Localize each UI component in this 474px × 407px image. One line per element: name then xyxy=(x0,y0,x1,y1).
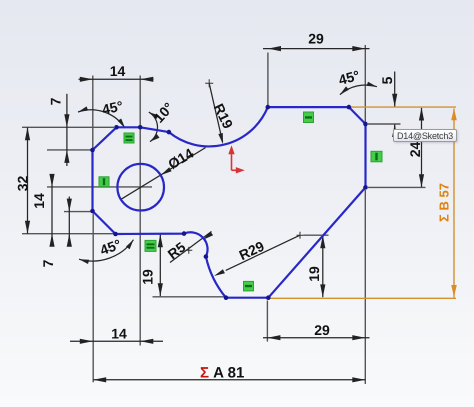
dim line 5 lower stub xyxy=(394,125,396,135)
arrow 19R lower xyxy=(320,284,325,297)
extension line x=140.2 through circle xyxy=(139,76,141,346)
svg-text:14: 14 xyxy=(31,193,47,209)
arrow 7-lower lower xyxy=(67,234,72,247)
arrow 19M upper xyxy=(158,234,163,247)
svg-text:Σ B 57: Σ B 57 xyxy=(437,183,452,222)
orange dim line xyxy=(453,109,455,298)
vertex V11 xyxy=(204,254,209,259)
sketch vertices xyxy=(90,105,368,300)
svg-text:Ø14: Ø14 xyxy=(165,145,196,172)
svg-text:29: 29 xyxy=(314,322,330,338)
arrow R5 xyxy=(203,232,213,240)
arrow A81 right xyxy=(352,377,365,382)
center mark R5 xyxy=(185,247,192,254)
origin y-axis arrowhead xyxy=(228,145,234,154)
svg-text:Σ A 81: Σ A 81 xyxy=(200,365,244,382)
svg-text:45°: 45° xyxy=(100,97,124,117)
svg-text:24: 24 xyxy=(407,142,423,158)
leader R29 xyxy=(226,235,300,270)
orange arrow bottom xyxy=(451,285,457,297)
relation square top edge xyxy=(304,112,314,123)
arrow 45BL left xyxy=(79,259,89,264)
arrow 29-bottom right xyxy=(352,335,365,340)
origin symbol (red) xyxy=(232,154,237,171)
arrow 14-left lower xyxy=(49,234,54,247)
extension lines (grey) xyxy=(22,45,426,384)
extension line x=268 upper xyxy=(267,53,269,106)
dimension lines (black) xyxy=(28,49,422,380)
svg-text:19: 19 xyxy=(306,266,322,282)
leader R19 xyxy=(209,83,222,142)
svg-text:45°: 45° xyxy=(98,236,123,258)
arrow 32 upper xyxy=(25,127,30,140)
origin x-axis shaft xyxy=(232,169,237,171)
vertex V5 xyxy=(266,105,271,110)
relation square left edge xyxy=(99,177,109,187)
arrow 32 lower xyxy=(25,221,30,234)
arrow 29-top left xyxy=(268,46,281,51)
vertex V8 xyxy=(363,185,368,190)
dim line 7 top-left xyxy=(66,94,68,166)
svg-text:14: 14 xyxy=(111,326,127,342)
svg-text:7: 7 xyxy=(48,97,64,105)
dim line 29 bottom xyxy=(263,337,370,339)
dim line 14 top xyxy=(79,78,154,80)
extension line x=93.2 lower xyxy=(92,214,94,383)
arrow 5 lower xyxy=(392,124,397,137)
black arrowheads xyxy=(25,46,424,382)
arrow 10deg top xyxy=(149,112,159,119)
orange extension bottom xyxy=(269,297,456,299)
dim line 5 upper part xyxy=(394,72,396,107)
arrow 19R upper xyxy=(320,235,325,248)
arrow 14-top right xyxy=(140,77,153,82)
arc 45 bottom-left xyxy=(79,240,134,261)
vertex V9 xyxy=(266,295,271,300)
arrow R29 xyxy=(214,269,225,276)
orange extension top xyxy=(350,106,456,108)
vertex V7 xyxy=(363,122,368,127)
arrow 29-bottom left xyxy=(267,335,280,340)
svg-text:5: 5 xyxy=(379,76,395,84)
arrow 45TL left xyxy=(78,106,88,112)
arrow 10deg bottom xyxy=(150,134,160,142)
extension line x=267.4 lower xyxy=(266,301,268,342)
relation square top chamfer xyxy=(124,133,134,143)
svg-text:45°: 45° xyxy=(337,67,362,88)
arrow 45TR left xyxy=(340,86,349,94)
svg-text:7: 7 xyxy=(40,259,56,267)
green relation squares xyxy=(99,112,382,291)
origin y-axis shaft xyxy=(231,154,233,171)
arrow 24 lower xyxy=(419,174,424,187)
extension line x=365.3 upper xyxy=(364,45,366,123)
vertex V6 xyxy=(347,105,352,110)
arrow 14-top left xyxy=(80,77,93,82)
relation square bottom left edge xyxy=(145,240,156,251)
orange arrow top xyxy=(451,108,457,120)
extension line y=296.8 xyxy=(153,296,225,298)
dimension texts xyxy=(15,31,452,382)
leader dia 14 xyxy=(121,148,206,200)
arrow 29-top right xyxy=(352,46,365,51)
arrow A81 left xyxy=(93,377,106,382)
extension line top-left y=127 xyxy=(22,126,114,128)
center mark R19 xyxy=(205,79,213,87)
svg-text:29: 29 xyxy=(308,31,324,47)
dim line 14 left xyxy=(51,175,53,247)
arc 45 top-left xyxy=(78,110,125,128)
vertex V4 xyxy=(167,130,172,135)
dim line 7 lower-left xyxy=(68,197,70,247)
vertex V10 xyxy=(224,295,229,300)
svg-text:R5: R5 xyxy=(165,239,189,263)
vertex V14 xyxy=(90,209,95,214)
arrow 7-lower upper xyxy=(67,199,72,212)
arc 45 top-right xyxy=(340,85,377,95)
arrow R19 xyxy=(218,133,223,144)
sketch profile (blue) xyxy=(93,107,366,298)
arrow 45BL right xyxy=(126,240,134,250)
dim line 14 bottom xyxy=(70,340,163,342)
dim line 19 middle xyxy=(159,235,161,297)
arrow 5 upper xyxy=(392,94,397,107)
extension line circle centerline xyxy=(47,186,152,188)
dim line 19 right xyxy=(322,235,324,297)
circle dia 14 xyxy=(117,164,164,211)
arrow 14-bottom left xyxy=(80,339,93,344)
arrow 45TR right xyxy=(367,82,377,87)
dim line 29 top xyxy=(263,48,370,50)
vertex V1 xyxy=(90,148,95,153)
arrow 14-bottom right xyxy=(140,339,153,344)
orange dimension B57 xyxy=(269,107,456,298)
arrow 7-top lower xyxy=(64,150,69,163)
origin x-axis arrowhead xyxy=(236,167,245,173)
angle arcs xyxy=(78,85,377,261)
svg-text:R19: R19 xyxy=(211,101,237,131)
arrow 14-left upper xyxy=(49,174,54,187)
relation square bottom edge xyxy=(244,281,254,291)
extension line y=187.4 right xyxy=(368,186,426,188)
dim line A81 xyxy=(93,379,365,381)
relation square right edge xyxy=(371,151,382,162)
vertex V13 xyxy=(113,232,118,237)
extension line y=211.6 xyxy=(64,211,91,213)
extension line from R29 center xyxy=(304,234,329,236)
extension line x=92.8 upper xyxy=(92,76,94,149)
arc 10 deg xyxy=(149,112,158,142)
arrow 7-top upper xyxy=(64,114,69,127)
extension line y=124 right xyxy=(368,123,401,125)
arrow 19M lower xyxy=(158,283,163,296)
dim line 24 xyxy=(421,108,423,187)
vertex V2 xyxy=(114,125,119,130)
svg-text:32: 32 xyxy=(15,176,31,192)
svg-text:14: 14 xyxy=(110,63,126,79)
center mark R29 xyxy=(297,232,304,239)
arrow 45TL right xyxy=(118,119,125,129)
arrow 24 upper xyxy=(419,108,424,121)
vertex V12 xyxy=(182,231,187,236)
leader R5 xyxy=(170,232,212,263)
svg-text:10°: 10° xyxy=(150,99,176,125)
extension line y=233.7 xyxy=(22,233,114,235)
svg-text:R29: R29 xyxy=(236,238,266,263)
svg-text:19: 19 xyxy=(139,269,155,285)
extension line x=365.3 lower xyxy=(364,190,366,384)
tooltip D14@Sketch3 xyxy=(393,129,457,142)
vertex V3 xyxy=(138,125,143,130)
extension line y=150 xyxy=(47,149,91,151)
dim line 32 xyxy=(27,127,29,233)
center marks xyxy=(185,79,303,254)
arrow dia14 xyxy=(161,167,172,175)
